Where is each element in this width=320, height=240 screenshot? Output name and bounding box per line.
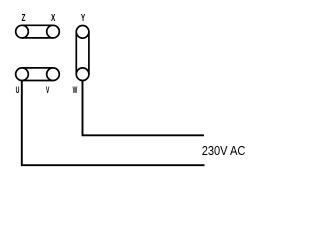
label X <box>51 12 56 24</box>
label 230V AC <box>202 143 246 158</box>
label Z <box>22 12 26 24</box>
link U-V bar <box>22 68 53 81</box>
svg-text:U: U <box>16 84 20 95</box>
svg-text:Y: Y <box>81 12 86 24</box>
terminal W <box>76 68 89 81</box>
label Y <box>81 12 86 24</box>
svg-text:Z: Z <box>22 12 26 24</box>
terminal Z <box>16 25 29 38</box>
terminal U <box>16 68 29 81</box>
svg-text:230V AC: 230V AC <box>202 143 246 158</box>
wire U to supply <box>22 81 205 166</box>
wire W to supply <box>83 81 205 136</box>
label U <box>16 84 20 95</box>
terminal V <box>47 68 60 81</box>
terminal Y <box>76 26 89 39</box>
svg-text:W: W <box>73 84 78 95</box>
svg-text:X: X <box>51 12 56 24</box>
label W <box>73 84 78 95</box>
terminal X <box>47 25 60 38</box>
svg-text:V: V <box>46 84 50 95</box>
link Z-X bar <box>22 25 53 38</box>
label V <box>46 84 50 95</box>
link Y-W bar <box>76 32 89 74</box>
